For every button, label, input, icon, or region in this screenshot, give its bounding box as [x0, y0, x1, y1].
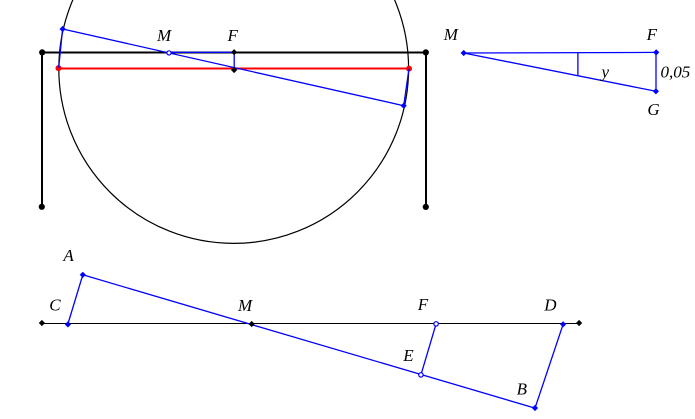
svg-text:0,05: 0,05 — [661, 63, 691, 82]
wire blue segment E to F — [421, 324, 436, 375]
node G triangle — [653, 88, 659, 94]
wire top horizontal black bar — [41, 52, 427, 54]
triangle side FG — [655, 52, 657, 91]
svg-text:B: B — [517, 380, 528, 399]
node A blue diamond — [80, 272, 86, 278]
node M triangle — [461, 50, 467, 56]
svg-text:M: M — [237, 296, 253, 315]
wire blue chord through M — [63, 29, 404, 106]
node right leg bottom dot — [423, 204, 429, 210]
svg-text:D: D — [543, 296, 557, 315]
point E open circle — [419, 373, 423, 377]
svg-text:C: C — [49, 296, 61, 315]
wire blue segment B to D — [535, 324, 563, 408]
wire blue segment F to center O — [233, 52, 235, 69]
svg-text:E: E — [402, 346, 414, 365]
node bottom line right end diamond — [576, 320, 582, 326]
triangle hypotenuse MG — [464, 53, 656, 91]
node B blue diamond — [532, 405, 538, 411]
node red right endpoint — [406, 66, 412, 72]
node bottom line left end diamond — [39, 320, 45, 326]
point O center black dot — [231, 67, 237, 73]
svg-text:M: M — [443, 25, 459, 44]
svg-text:F: F — [227, 26, 239, 45]
wire blue segment C to A — [68, 275, 83, 324]
point F black dot on top bar — [231, 49, 237, 55]
svg-text:A: A — [62, 246, 74, 265]
svg-text:F: F — [646, 25, 658, 44]
point F bottom open circle — [434, 322, 438, 326]
triangle MFG: side MF — [464, 51, 657, 54]
point M open circle on top bar — [167, 51, 171, 55]
svg-text:F: F — [417, 295, 429, 314]
wire long blue line A to B — [83, 275, 535, 408]
node red left endpoint — [56, 65, 62, 71]
tick segment y inside triangle — [577, 53, 579, 76]
circle (mirror arc), center O — [59, 0, 409, 243]
svg-text:G: G — [647, 100, 659, 119]
node M bottom black diamond — [249, 321, 255, 327]
wire right vertical black leg — [425, 52, 427, 207]
wire blue segment M to F — [169, 51, 234, 53]
wire bottom horizontal black line CD — [42, 323, 579, 325]
node top-right corner dot — [423, 49, 429, 55]
wire left vertical black leg — [41, 52, 43, 207]
svg-text:y: y — [600, 63, 610, 82]
node C blue diamond — [65, 321, 71, 327]
node top-left corner dot — [39, 49, 45, 55]
svg-text:M: M — [156, 26, 172, 45]
wire red diameter line — [59, 68, 410, 70]
node F triangle — [653, 49, 659, 55]
wire blue segment red right end to chord-end — [404, 69, 409, 106]
node left leg bottom dot — [39, 204, 45, 210]
wire blue segment left chord-end to red end — [59, 29, 63, 68]
node blue chord endpoint upper-left — [60, 26, 66, 32]
node D blue diamond — [560, 321, 566, 327]
node blue chord endpoint lower-right — [401, 103, 407, 109]
